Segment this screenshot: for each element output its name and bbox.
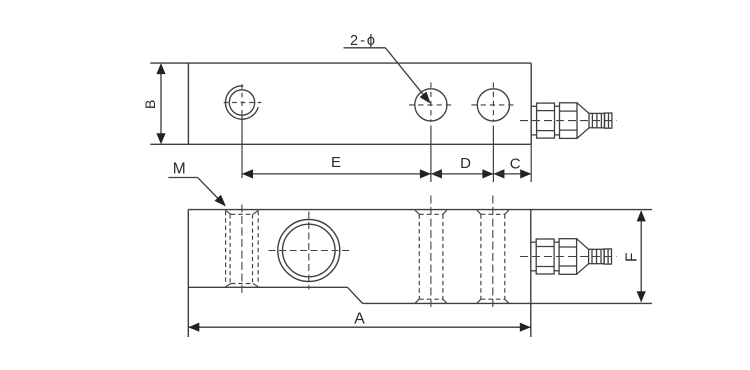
threaded hole M: outer right dashed	[257, 211, 259, 283]
thread circle inner (top view left)	[229, 90, 254, 115]
E left extension line from thread circle	[241, 115, 243, 178]
dimension D left arrowhead	[431, 169, 442, 178]
hole 1 horizontal centerline	[409, 104, 455, 106]
dimension A right arrowhead	[520, 323, 531, 332]
load hole inner circle	[283, 224, 336, 277]
threaded hole M: outer left dashed	[225, 211, 227, 283]
label M leader horizontal	[168, 177, 197, 179]
cable gland side view	[531, 239, 612, 275]
threaded hole M centerline	[241, 205, 243, 295]
svg-text:A: A	[354, 310, 365, 327]
threaded hole M: top chamfers and land	[226, 210, 259, 214]
bolt hole 2: top chamfers and land	[477, 210, 509, 214]
top view: bottom edge with B extension	[150, 143, 531, 145]
bolt hole 2 (side view): left dashed line	[480, 214, 482, 299]
dimension E right arrowhead	[420, 169, 431, 178]
dimension F top arrowhead	[637, 210, 646, 221]
cable gland side view centerline	[520, 256, 617, 258]
dimension line D	[431, 173, 494, 175]
svg-text:E: E	[331, 154, 341, 171]
side view: right edge with A extension	[530, 210, 532, 337]
right edge extension line below top view	[530, 144, 532, 182]
svg-text:M: M	[173, 161, 186, 178]
label 2-phi underline	[344, 47, 386, 49]
label M arrowhead	[215, 195, 227, 207]
bolt hole 2: bottom chamfers and land	[477, 299, 509, 303]
cable gland top view	[531, 103, 612, 139]
hole 2 extension line	[492, 126, 494, 183]
bolt hole 2 centerline	[492, 196, 494, 310]
svg-text:C: C	[510, 156, 521, 173]
hole 2 horizontal centerline	[471, 104, 515, 106]
dimension F bottom arrowhead	[637, 291, 646, 302]
bolt hole 1: top chamfers and land	[415, 210, 447, 214]
threaded hole M: inner right dashed	[252, 214, 254, 283]
side view: bottom step diagonal	[348, 287, 363, 303]
bolt hole 1: bottom chamfers and land	[415, 299, 447, 303]
bolt hole 2: right dashed line	[504, 214, 506, 299]
thread circle horizontal centerline	[224, 102, 262, 104]
bolt hole 1: right dashed line	[442, 214, 444, 299]
dimension B bottom arrowhead	[156, 133, 165, 144]
leader arrowhead at hole 1	[420, 92, 431, 104]
side view: bottom edge right section with F extension	[363, 302, 653, 304]
dimension line F	[640, 211, 642, 302]
dimension E left arrowhead	[242, 169, 253, 178]
dimension C right arrowhead	[520, 169, 531, 178]
load hole vertical centerline	[308, 212, 310, 290]
side view: top edge with F extension	[188, 209, 652, 211]
threaded hole M: inner left dashed	[229, 214, 231, 283]
hole 1 circle (top view)	[415, 89, 447, 121]
dimension D right arrowhead	[482, 169, 493, 178]
thread circle outer arc	[225, 86, 258, 119]
hole 2 vertical centerline	[492, 83, 494, 123]
cable gland top view centerline	[520, 120, 617, 122]
dimension C left arrowhead	[493, 169, 504, 178]
svg-text:D: D	[460, 155, 471, 172]
bolt hole 1 centerline	[430, 196, 432, 310]
dimension A left arrowhead	[188, 323, 199, 332]
dimension line A	[188, 326, 531, 328]
dimension B top arrowhead	[156, 63, 165, 74]
label M leader diagonal	[198, 178, 222, 203]
dimension line E	[242, 173, 431, 175]
hole 1 extension line	[430, 126, 432, 183]
bolt hole 1 (side view): left dashed line	[418, 214, 420, 299]
svg-text:B: B	[142, 100, 158, 109]
svg-text:F: F	[624, 253, 641, 262]
load hole outer circle (side view)	[278, 220, 340, 282]
top view: left edge	[187, 63, 189, 144]
hole 1 vertical centerline	[430, 83, 432, 123]
hole 2 circle (top view)	[477, 89, 509, 121]
dimension B line	[160, 74, 162, 134]
dimension line C	[493, 173, 531, 175]
svg-text:2-ϕ: 2-ϕ	[350, 33, 377, 49]
top view: right edge	[530, 63, 532, 144]
leader line to hole 1	[385, 48, 427, 99]
threaded hole M: bottom chamfers and land	[226, 284, 259, 287]
load hole horizontal centerline	[269, 250, 349, 252]
top view: top edge with B extension	[150, 62, 531, 64]
side view: bottom edge left section	[188, 286, 347, 288]
side view: left edge with A extension	[187, 210, 189, 337]
thread circle vertical centerline	[241, 84, 243, 120]
